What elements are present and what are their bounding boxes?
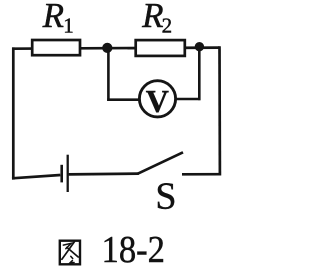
wire switch right contact bbox=[182, 173, 221, 176]
svg-text:R: R bbox=[42, 0, 64, 35]
svg-text:18-2: 18-2 bbox=[102, 229, 166, 271]
svg-text:1: 1 bbox=[63, 14, 73, 38]
resistor R1 bbox=[32, 40, 80, 55]
wire voltmeter left vertical bbox=[107, 48, 110, 101]
battery cell short plate bbox=[60, 165, 63, 183]
wire voltmeter right vertical bbox=[198, 47, 201, 101]
wire battery to switch pivot bbox=[69, 172, 139, 175]
battery cell long plate bbox=[67, 155, 69, 192]
op-amp voltmeter circle U1 bbox=[139, 81, 175, 117]
wire bottom left (battery to left corner) bbox=[12, 175, 60, 178]
svg-text:2: 2 bbox=[162, 14, 173, 38]
node dot right of R2 bbox=[195, 42, 204, 51]
wire left vertical bbox=[12, 47, 15, 179]
wire right vertical bbox=[218, 46, 221, 175]
svg-text:V: V bbox=[146, 83, 169, 119]
switch S blade bbox=[138, 152, 184, 174]
wire voltmeter left horizontal bbox=[107, 98, 140, 101]
wire voltmeter right horizontal bbox=[175, 98, 201, 101]
resistor R2 bbox=[136, 40, 185, 56]
svg-text:R: R bbox=[141, 0, 163, 35]
wire top horizontal bbox=[12, 48, 220, 49]
caption glyph TU (chinese character for figure) bbox=[60, 241, 80, 265]
node dot between R1 and R2 bbox=[102, 43, 112, 53]
svg-text:S: S bbox=[155, 176, 176, 218]
